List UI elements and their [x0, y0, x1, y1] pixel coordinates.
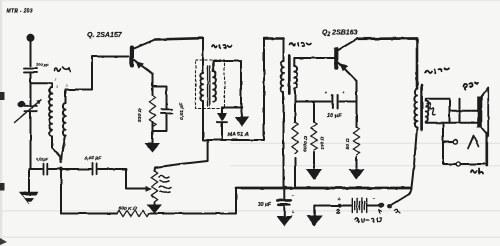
wire detector tap to pot [155, 140, 208, 171]
resistor 330 (Q2 base) [306, 102, 322, 181]
volume pot R2 [147, 171, 162, 214]
node battery plus [338, 203, 342, 207]
top rail segment B [264, 37, 284, 40]
svg-text:4: 4 [64, 143, 66, 147]
wire left rail down [60, 169, 62, 214]
jack contact circle 2 [456, 162, 460, 166]
switch S1 blade [392, 188, 412, 205]
output transformer primary [414, 89, 417, 128]
svg-text:6000 Ω: 6000 Ω [303, 136, 309, 152]
capacitor 0.01uF [44, 164, 48, 175]
wire to jack sleeve [443, 163, 456, 165]
svg-text:50 Ω: 50 Ω [345, 138, 351, 149]
wire to battery [340, 205, 351, 207]
wire speaker loop [459, 99, 461, 123]
ground arrow below R330 [145, 143, 161, 153]
svg-text:1: 1 [52, 143, 54, 147]
wire emitter down [152, 74, 154, 95]
diode MA51A [217, 108, 227, 141]
handwritten IFT1 note [212, 45, 232, 48]
svg-text:600 K.Ω: 600 K.Ω [119, 206, 137, 212]
antenna [28, 35, 34, 67]
wire battery plus to ground [314, 206, 340, 217]
capacitor 10uF [332, 95, 337, 108]
jack switch contact [468, 136, 479, 149]
capacitor 0.02uF [93, 163, 97, 174]
svg-text:330 Ω: 330 Ω [137, 108, 143, 122]
svg-text:Q. 2SA157: Q. 2SA157 [87, 32, 123, 39]
scan streak lines [0, 143, 500, 237]
wire resistor bottom [152, 122, 154, 144]
wire battery minus [367, 205, 380, 207]
pot handwritten value [159, 176, 171, 193]
wire OPT secondary to speaker top [426, 99, 450, 123]
pin labels L1 [52, 78, 69, 147]
top rail segment A [155, 38, 203, 39]
wire base Q1 [66, 57, 129, 90]
svg-text:+: + [325, 91, 328, 96]
OPT core [420, 85, 423, 130]
svg-text:+: + [338, 197, 341, 203]
speaker SP [477, 88, 488, 136]
svg-text:MTR - 203: MTR - 203 [7, 9, 33, 15]
node [239, 106, 242, 109]
polarity marks battery [338, 196, 376, 203]
handwritten IFT2 note [290, 43, 312, 47]
wire secondary top loop [213, 61, 241, 108]
ground G1 [20, 169, 39, 204]
wire [49, 168, 91, 170]
bottom wire to rail corner [149, 188, 236, 214]
variable capacitor VC1 [15, 100, 42, 123]
wire rail corner down to OPT [416, 39, 419, 90]
svg-text:10 µF: 10 µF [327, 113, 342, 119]
resistor 600K [117, 210, 149, 216]
wire IFT1 bottom loop [203, 39, 264, 141]
ground arrow 30uF [276, 216, 292, 226]
node battery minus [378, 203, 384, 208]
bottom wire left [61, 213, 117, 215]
handwritten sp label [464, 83, 479, 90]
IFT1 core [208, 66, 210, 106]
polarity marks 30uF [292, 193, 295, 216]
wire tank down [30, 111, 32, 169]
ground arrow battery [306, 216, 322, 227]
IFT2 core [288, 56, 291, 94]
handwritten hd label [471, 169, 483, 174]
capacitor 0.01uF Q1 bypass [153, 87, 173, 132]
capacitor C1 100pF [24, 69, 37, 73]
resistor 50 (Q2 emitter) [349, 102, 365, 181]
wire to volume pot wiper [98, 169, 151, 191]
wire rail to IFT1 primary [202, 38, 204, 73]
capacitor 30uF [277, 188, 291, 217]
handwritten battery terminal marks [337, 209, 340, 213]
coil L1 primary [49, 87, 61, 160]
wire OPT primary bottom to rail [412, 128, 418, 188]
transistor Q2 [334, 39, 357, 81]
wire to jack tip [443, 141, 453, 143]
bottom rail [236, 187, 412, 190]
plus marks 10uF [325, 90, 345, 96]
svg-text:+: + [342, 90, 345, 95]
svg-text:100 pF: 100 pF [36, 62, 49, 67]
jack contact circle 1 [453, 140, 457, 144]
wire OPT secondary bottom [426, 122, 480, 123]
svg-text:MA 51 A: MA 51 A [228, 132, 249, 138]
svg-text:0,01 µF: 0,01 µF [179, 102, 185, 120]
top rail segment C [357, 37, 417, 40]
wire to coil top [31, 83, 53, 87]
svg-text:0,01µF: 0,01µF [37, 158, 49, 162]
wire emitter node line [295, 101, 331, 103]
wire Q2 emitter down [356, 81, 358, 102]
ground arrow IFT1 [235, 108, 249, 127]
wire antenna to tank [30, 72, 32, 105]
IFT1 secondary coil [213, 61, 216, 102]
wire base Q2 [294, 57, 334, 59]
svg-text:0,02 µF: 0,02 µF [85, 156, 103, 162]
handwritten antenna note [54, 67, 70, 72]
OPT secondary [426, 101, 435, 122]
thick speaker return [485, 133, 488, 165]
IFT2 primary coil [281, 61, 284, 187]
IFT1 shield dashed box [196, 60, 225, 109]
handwritten out label [425, 68, 449, 73]
resistor 330 (Q1 emitter) [149, 95, 155, 127]
transistor Q1 [130, 40, 155, 74]
IFT2 secondary coil [294, 58, 297, 102]
wire jack bottom loop [461, 163, 487, 165]
IFT1 primary coil [200, 73, 203, 140]
handwritten battery value [355, 218, 381, 223]
svg-text:–: – [292, 193, 295, 199]
svg-text:30 µF: 30 µF [258, 202, 272, 208]
node rail 30uF [282, 186, 286, 190]
battery B1 [352, 198, 366, 213]
node junction [59, 167, 63, 171]
wire junction to 0.01uF line [29, 168, 42, 170]
svg-text:+: + [292, 210, 295, 216]
wire rail to IFT2 primary [283, 39, 285, 62]
svg-text:–: – [373, 196, 376, 202]
coil L1 secondary [61, 90, 66, 163]
svg-text:330 Ω: 330 Ω [320, 136, 326, 150]
wire to diode [222, 107, 241, 109]
resistor 6000 [292, 102, 298, 187]
switch S1 pole [387, 204, 392, 208]
